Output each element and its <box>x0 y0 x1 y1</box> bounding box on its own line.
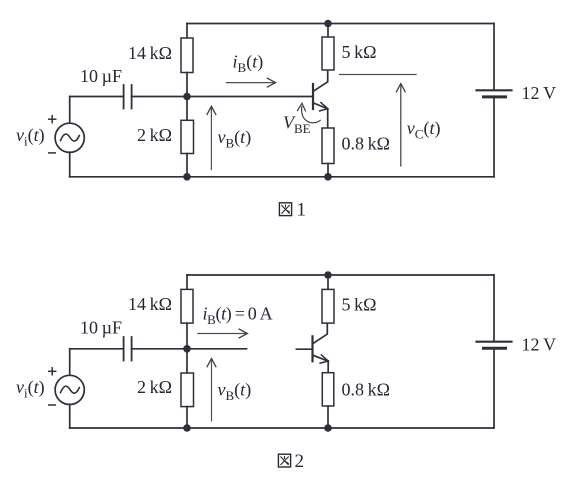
wire 5k top lead fig2 <box>327 275 329 289</box>
wire Q2 base stub open fig2 <box>296 348 312 350</box>
wire bottom rail fig1 <box>70 176 494 178</box>
svg-text:iB(t): iB(t) <box>233 52 264 76</box>
wire battery top lead fig1 <box>493 24 495 90</box>
transistor Q2 fig2 <box>313 323 329 372</box>
resistor R5 14k body fig2 <box>181 289 193 323</box>
wire 2k bottom lead fig1 <box>186 154 188 177</box>
wire base wire open ended fig2 <box>132 348 247 350</box>
wire 14k bottom lead fig2 <box>186 323 188 349</box>
battery B2 fig2 <box>477 342 512 349</box>
wire battery bottom lead fig2 <box>493 350 495 428</box>
wire source top lead fig2 <box>69 349 71 376</box>
svg-text:vi(t): vi(t) <box>16 125 45 149</box>
source V1 circle fig1 <box>55 123 84 152</box>
wire 14k top lead fig1 <box>186 24 188 39</box>
resistor R1 14k body fig1 <box>181 38 193 73</box>
source V1 sine fig1 <box>61 134 80 141</box>
wire 2k top lead fig1 <box>186 97 188 121</box>
capacitor C2 10uF plates fig2 <box>124 337 132 361</box>
wire 14k bottom lead fig1 <box>186 73 188 97</box>
wire source to capacitor fig1 <box>70 96 123 98</box>
node B base junction fig2 <box>183 345 191 353</box>
wire vC reference line fig1 <box>340 74 417 76</box>
resistor R8 0.8k body fig2 <box>322 373 334 406</box>
wire source to capacitor fig2 <box>70 348 123 350</box>
node bottom rail left junction fig1 <box>183 173 191 181</box>
label minus sign fig1 <box>49 152 56 154</box>
wire 0.8k bottom lead fig2 <box>327 406 329 428</box>
resistor R2 2k body fig1 <box>181 120 194 153</box>
arrow VBE curved fig1 <box>298 103 321 123</box>
wire source bottom lead fig1 <box>69 152 71 177</box>
svg-text:vB(t): vB(t) <box>218 380 252 404</box>
arrow iB fig2 <box>198 329 248 338</box>
svg-text:vC(t): vC(t) <box>407 118 441 142</box>
wire battery bottom lead fig1 <box>493 98 495 177</box>
svg-text:5 kΩ: 5 kΩ <box>342 42 377 62</box>
svg-text:vi(t): vi(t) <box>16 377 45 401</box>
label plus sign fig1 <box>49 116 56 123</box>
label caption fig2 <box>278 451 304 472</box>
node bottom rail right junction fig2 <box>324 424 332 432</box>
capacitor C1 10uF plates fig1 <box>124 85 132 109</box>
resistor R7 5k body fig2 <box>322 289 334 323</box>
wire top rail fig1 <box>187 23 494 25</box>
resistor R3 5k body fig1 <box>322 37 334 70</box>
node bottom rail left junction fig2 <box>183 424 191 432</box>
svg-text:2 kΩ: 2 kΩ <box>137 377 172 397</box>
svg-text:0.8 kΩ: 0.8 kΩ <box>342 134 390 154</box>
svg-text:2 kΩ: 2 kΩ <box>137 125 172 145</box>
arrow vC fig1 <box>396 84 405 166</box>
transistor Q1 fig1 <box>313 71 328 129</box>
label minus sign fig2 <box>49 404 56 406</box>
battery B1 fig1 <box>477 90 512 97</box>
wire 0.8k bottom lead fig1 <box>327 164 329 177</box>
svg-text:12 V: 12 V <box>522 335 557 355</box>
wire base wire capacitor to Q1 base fig1 <box>132 96 313 98</box>
svg-text:14 kΩ: 14 kΩ <box>128 294 172 314</box>
node B base junction fig1 <box>183 93 191 101</box>
svg-text:0.8 kΩ: 0.8 kΩ <box>342 380 390 400</box>
svg-text:iB(t) = 0 A: iB(t) = 0 A <box>203 304 273 328</box>
resistor R6 2k body fig2 <box>181 373 194 407</box>
wire 14k top lead fig2 <box>186 275 188 289</box>
arrow vB fig1 <box>207 106 216 169</box>
label caption fig1 <box>279 200 306 221</box>
label plus sign fig2 <box>49 368 56 375</box>
svg-text:14 kΩ: 14 kΩ <box>128 43 172 63</box>
wire 2k top lead fig2 <box>186 349 188 373</box>
svg-text:10 µF: 10 µF <box>80 318 122 338</box>
wire battery top lead fig2 <box>493 275 495 341</box>
wire source bottom lead fig2 <box>69 404 71 428</box>
svg-text:5 kΩ: 5 kΩ <box>342 295 377 315</box>
svg-text:1: 1 <box>297 200 307 221</box>
source V2 circle fig2 <box>55 375 84 404</box>
wire source top lead fig1 <box>69 97 71 124</box>
wire 5k top lead fig1 <box>327 24 329 38</box>
svg-text:2: 2 <box>295 451 305 472</box>
source V2 sine fig2 <box>61 386 80 393</box>
svg-text:10 µF: 10 µF <box>80 66 122 86</box>
svg-text:VBE: VBE <box>283 113 311 137</box>
node top rail junction fig2 <box>324 271 332 279</box>
arrow vB fig2 <box>207 359 216 421</box>
resistor R4 0.8k body fig1 <box>322 128 334 164</box>
node top rail junction fig1 <box>324 20 332 28</box>
wire 2k bottom lead fig2 <box>186 407 188 428</box>
arrow iB fig1 <box>226 78 275 87</box>
wire bottom rail fig2 <box>70 427 494 429</box>
wire top rail fig2 <box>187 274 494 276</box>
svg-text:vB(t): vB(t) <box>218 127 252 151</box>
svg-text:12 V: 12 V <box>522 83 557 103</box>
node bottom rail right junction fig1 <box>324 173 332 181</box>
